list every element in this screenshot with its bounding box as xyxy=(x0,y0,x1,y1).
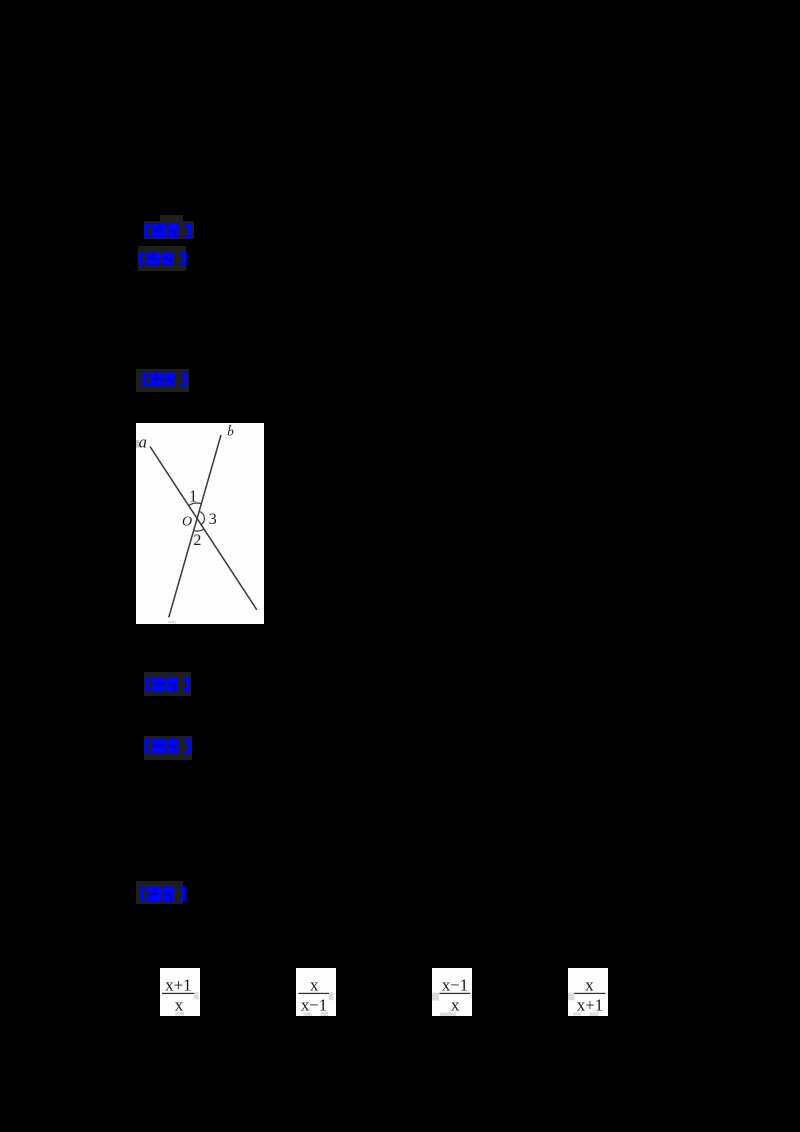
arc angle 1 xyxy=(189,503,202,506)
svg-text:a: a xyxy=(139,432,147,451)
svg-text:3: 3 xyxy=(209,511,217,528)
arc angle 2 xyxy=(194,529,204,531)
svg-text:x−1: x−1 xyxy=(442,976,468,995)
highlight bg label 3 xyxy=(136,369,189,393)
svg-text:x−1: x−1 xyxy=(301,996,327,1015)
geometry figure: two lines a and b crossing at O xyxy=(136,423,264,624)
blue label 6 detail tag xyxy=(140,886,187,902)
gray artifact bottom near line b end xyxy=(168,621,176,623)
highlight bg label 1 xyxy=(144,221,194,239)
svg-text:x+1: x+1 xyxy=(165,976,191,995)
arc angle 3 xyxy=(199,511,204,524)
svg-text:x: x xyxy=(451,996,460,1015)
selection highlight above label 1 xyxy=(160,215,183,220)
fraction option D: x/(x+1) xyxy=(568,968,608,1016)
blue label 2 analysis tag xyxy=(138,252,187,266)
dot above b xyxy=(229,425,231,427)
highlight bg label 4 xyxy=(144,672,191,696)
svg-text:x: x xyxy=(585,976,594,995)
svg-text:x+1: x+1 xyxy=(577,996,603,1015)
highlight bg label 6 xyxy=(136,881,184,904)
svg-text:2: 2 xyxy=(193,532,201,549)
line a xyxy=(150,447,257,610)
gray artifact left of label a xyxy=(136,440,139,448)
svg-text:x: x xyxy=(175,996,184,1015)
line b xyxy=(169,435,221,617)
svg-text:O: O xyxy=(182,515,192,530)
highlight bg label 2 xyxy=(138,246,187,272)
fraction option B: x/(x-1) xyxy=(296,968,336,1016)
blue label 3 detail tag xyxy=(142,372,188,387)
fraction option A: (x+1)/x xyxy=(160,968,200,1016)
blue label 4 keypoint tag xyxy=(145,677,190,692)
highlight bg label 5 xyxy=(144,736,192,760)
blue label 5 answer tag xyxy=(144,738,192,754)
svg-text:x: x xyxy=(310,976,319,995)
blue label 1 answer tag xyxy=(144,223,192,239)
fraction option C: (x-1)/x xyxy=(432,968,472,1016)
